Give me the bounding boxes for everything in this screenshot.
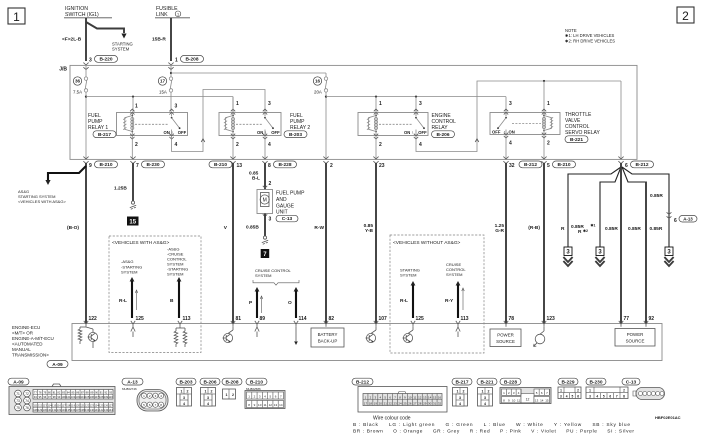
svg-text:<VEHICLES WITH AS&G>: <VEHICLES WITH AS&G>: [18, 199, 66, 204]
svg-text:26: 26: [408, 401, 412, 405]
svg-text:✱1: ✱1: [591, 224, 596, 228]
svg-text:20: 20: [379, 401, 383, 405]
svg-text:B-210: B-210: [557, 162, 570, 168]
svg-text:30: 30: [428, 401, 432, 405]
svg-text:4: 4: [268, 142, 271, 148]
svg-text:B-228: B-228: [504, 379, 517, 385]
svg-text:M: M: [263, 198, 267, 204]
svg-text:✱2: RH DRIVE VEHICLES: ✱2: RH DRIVE VEHICLES: [565, 38, 615, 43]
svg-text:B : Black LG : Light green: B : Black LG : Light green G : Green L :…: [353, 422, 630, 428]
svg-text:7: 7: [136, 163, 139, 169]
svg-text:92: 92: [649, 316, 655, 322]
svg-text:SWITCH (IG1): SWITCH (IG1): [65, 12, 99, 18]
svg-text:16: 16: [438, 395, 442, 399]
svg-text:<F>2L-B: <F>2L-B: [62, 37, 82, 43]
svg-text:SYSTEM: SYSTEM: [121, 270, 137, 275]
svg-text:3: 3: [484, 396, 486, 400]
svg-text:3: 3: [589, 394, 591, 398]
svg-text:18: 18: [369, 401, 373, 405]
svg-text:6: 6: [625, 163, 628, 169]
svg-text:3: 3: [89, 58, 92, 64]
svg-text:10: 10: [408, 395, 412, 399]
svg-text:B-228: B-228: [278, 162, 291, 168]
svg-text:8: 8: [623, 394, 625, 398]
svg-text:B-L: B-L: [252, 176, 260, 182]
svg-text:↑: ↑: [412, 130, 414, 135]
svg-text:<VEHICLES WITH AS&G>: <VEHICLES WITH AS&G>: [112, 240, 170, 246]
svg-text:ON: ON: [257, 130, 263, 135]
svg-text:B-230: B-230: [589, 379, 602, 385]
svg-text:1: 1: [560, 389, 562, 393]
svg-text:2: 2: [577, 389, 579, 393]
svg-text:14: 14: [279, 403, 283, 407]
svg-text:ON: ON: [404, 130, 410, 135]
svg-text:2: 2: [547, 141, 550, 147]
svg-text:12: 12: [526, 398, 530, 402]
svg-text:6: 6: [674, 218, 677, 224]
svg-text:B-210: B-210: [214, 162, 227, 168]
svg-text:B-210: B-210: [99, 162, 112, 168]
svg-text:2: 2: [379, 142, 382, 148]
svg-text:OFF: OFF: [418, 130, 427, 135]
svg-text:4: 4: [566, 394, 568, 398]
svg-text:2: 2: [211, 390, 213, 394]
svg-text:SYSTEM: SYSTEM: [255, 273, 271, 278]
svg-text:2: 2: [236, 142, 239, 148]
svg-text:1: 1: [135, 104, 138, 110]
svg-text:3: 3: [269, 217, 272, 223]
svg-text:SYSTEM: SYSTEM: [400, 273, 416, 278]
svg-text:Wire colour code: Wire colour code: [373, 416, 411, 422]
svg-text:R-Y: R-Y: [445, 298, 454, 304]
svg-text:32: 32: [509, 163, 515, 169]
svg-text:74: 74: [25, 399, 29, 403]
svg-text:27: 27: [413, 401, 417, 405]
svg-text:RELAY 2: RELAY 2: [290, 125, 310, 131]
svg-text:6: 6: [577, 394, 579, 398]
svg-text:2: 2: [330, 163, 333, 169]
svg-text:2: 2: [682, 9, 689, 23]
svg-text:3: 3: [560, 394, 562, 398]
svg-text:POWER: POWER: [497, 333, 514, 338]
svg-text:10: 10: [258, 403, 262, 407]
svg-text:23: 23: [379, 163, 385, 169]
svg-text:31: 31: [433, 401, 437, 405]
svg-text:B-217: B-217: [455, 379, 468, 385]
svg-text:2: 2: [463, 390, 465, 394]
svg-text:36: 36: [75, 79, 81, 84]
svg-text:144: 144: [108, 408, 113, 412]
svg-text:2: 2: [623, 389, 625, 393]
svg-text:13: 13: [423, 395, 427, 399]
svg-text:BR : Brown O : Orange: BR : Brown O : Orange GR : Grey R : Red …: [353, 429, 634, 435]
svg-text:89: 89: [260, 316, 266, 322]
svg-text:114: 114: [299, 316, 307, 322]
svg-text:2: 2: [269, 181, 272, 187]
svg-text:4: 4: [459, 402, 461, 406]
svg-text:21: 21: [384, 401, 388, 405]
svg-text:B-206: B-206: [203, 379, 216, 385]
svg-text:13: 13: [237, 163, 243, 169]
svg-text:1: 1: [236, 101, 239, 107]
svg-text:3: 3: [268, 101, 271, 107]
svg-text:1: 1: [589, 389, 591, 393]
svg-text:2: 2: [135, 142, 138, 148]
svg-text:<VEHICLES WITHOUT AS&G>: <VEHICLES WITHOUT AS&G>: [393, 240, 461, 246]
svg-text:28: 28: [418, 401, 422, 405]
svg-text:1: 1: [177, 13, 179, 17]
svg-text:19: 19: [374, 401, 378, 405]
svg-text:0.85R: 0.85R: [650, 226, 663, 232]
svg-text:B-212: B-212: [524, 162, 537, 168]
svg-text:A-09: A-09: [52, 362, 63, 368]
svg-text:122: 122: [89, 316, 98, 322]
svg-text:R: R: [578, 229, 582, 235]
svg-text:OFF: OFF: [178, 130, 187, 135]
svg-text:<AUTOMATED: <AUTOMATED: [12, 342, 43, 347]
svg-text:1: 1: [379, 101, 382, 107]
svg-text:4: 4: [596, 394, 598, 398]
svg-text:1: 1: [181, 390, 183, 394]
svg-text:3: 3: [207, 396, 209, 400]
svg-text:16: 16: [315, 79, 321, 84]
svg-text:A-13: A-13: [127, 379, 138, 385]
svg-text:73: 73: [16, 399, 20, 403]
svg-text:113: 113: [461, 316, 469, 322]
svg-text:<M/T> OR: <M/T> OR: [12, 331, 34, 336]
svg-text:R: R: [561, 226, 565, 232]
svg-text:4: 4: [419, 142, 422, 148]
svg-text:0.85R: 0.85R: [650, 193, 663, 199]
svg-text:71: 71: [16, 392, 20, 396]
svg-text:UNIT: UNIT: [276, 210, 288, 216]
svg-text:ENGINE-A-M/T-ECU: ENGINE-A-M/T-ECU: [12, 336, 54, 341]
svg-text:R-L: R-L: [119, 298, 127, 304]
svg-text:HBF02E01AC: HBF02E01AC: [655, 415, 681, 420]
svg-text:123: 123: [547, 316, 556, 322]
svg-text:23: 23: [393, 401, 397, 405]
svg-text:(R-B): (R-B): [528, 225, 540, 231]
svg-text:MU802746: MU802746: [122, 387, 137, 391]
svg-text:11: 11: [263, 403, 266, 407]
svg-text:113: 113: [183, 316, 191, 322]
svg-text:6: 6: [609, 394, 611, 398]
svg-text:R-L: R-L: [400, 298, 408, 304]
svg-text:72: 72: [25, 392, 29, 396]
svg-text:1: 1: [13, 10, 20, 24]
svg-text:9: 9: [89, 163, 92, 169]
svg-text:3: 3: [509, 101, 512, 107]
svg-text:4: 4: [484, 402, 486, 406]
svg-text:17: 17: [160, 79, 166, 84]
svg-text:2: 2: [187, 390, 189, 394]
svg-text:SOURCE: SOURCE: [496, 339, 515, 344]
svg-text:10: 10: [512, 399, 516, 403]
svg-text:J/B: J/B: [59, 67, 67, 73]
svg-text:8: 8: [268, 163, 271, 169]
svg-text:MANUAL: MANUAL: [12, 347, 31, 352]
svg-text:RELAY: RELAY: [432, 125, 449, 131]
svg-text:12: 12: [418, 395, 422, 399]
svg-text:107: 107: [379, 316, 388, 322]
svg-text:15A: 15A: [159, 90, 167, 95]
svg-text:✱2: ✱2: [583, 229, 588, 233]
svg-text:B-212: B-212: [635, 162, 648, 168]
svg-text:B-230: B-230: [146, 162, 159, 168]
svg-text:78: 78: [509, 316, 515, 322]
svg-text:0.85R: 0.85R: [628, 226, 641, 232]
svg-text:OFF: OFF: [271, 130, 280, 135]
svg-text:125: 125: [136, 316, 145, 322]
svg-text:SOURCE: SOURCE: [626, 339, 645, 344]
svg-text:20A: 20A: [314, 90, 322, 95]
svg-text:4: 4: [207, 402, 209, 406]
svg-text:1: 1: [226, 393, 228, 397]
svg-text:C-13: C-13: [626, 379, 637, 385]
svg-text:125: 125: [416, 316, 425, 322]
svg-text:O: O: [288, 300, 292, 306]
svg-text:BATTERY: BATTERY: [318, 332, 338, 337]
svg-text:R-W: R-W: [314, 225, 324, 231]
svg-text:4: 4: [509, 141, 512, 147]
svg-text:15B-R: 15B-R: [152, 37, 166, 43]
svg-text:SYSTEM: SYSTEM: [112, 47, 130, 52]
svg-text:B-210: B-210: [250, 379, 263, 385]
svg-text:RELAY 1: RELAY 1: [88, 125, 108, 131]
svg-text:TRANSMISSION>: TRANSMISSION>: [12, 353, 49, 358]
svg-text:LINK: LINK: [156, 12, 168, 18]
svg-text:B-208: B-208: [225, 379, 238, 385]
svg-text:5: 5: [571, 394, 573, 398]
svg-text:76: 76: [25, 406, 29, 410]
svg-text:15: 15: [129, 220, 136, 226]
svg-text:SYSTEM: SYSTEM: [446, 272, 462, 277]
svg-text:1: 1: [482, 390, 484, 394]
svg-text:B-220: B-220: [99, 57, 112, 63]
svg-text:A-13: A-13: [683, 216, 693, 221]
svg-text:5: 5: [603, 394, 605, 398]
svg-text:B-203: B-203: [179, 379, 192, 385]
svg-text:C-13: C-13: [282, 216, 293, 222]
svg-text:B-221: B-221: [480, 379, 493, 385]
svg-text:22: 22: [389, 401, 393, 405]
svg-text:SERVO RELAY: SERVO RELAY: [565, 130, 600, 136]
svg-text:B: B: [170, 298, 174, 304]
svg-text:GAUGE: GAUGE: [276, 204, 295, 210]
svg-text:-AS&G: -AS&G: [121, 259, 133, 264]
svg-text:BACK-UP: BACK-UP: [318, 339, 338, 344]
svg-text:25: 25: [403, 401, 407, 405]
svg-text:1: 1: [457, 390, 459, 394]
svg-text:1.25B: 1.25B: [114, 186, 127, 192]
svg-text:32: 32: [438, 401, 442, 405]
svg-text:127: 127: [108, 403, 113, 407]
svg-text:14: 14: [540, 399, 544, 403]
svg-text:7: 7: [616, 394, 618, 398]
svg-text:82: 82: [329, 316, 335, 322]
svg-text:3: 3: [459, 396, 461, 400]
svg-text:4: 4: [183, 402, 185, 406]
svg-text:12: 12: [269, 403, 273, 407]
svg-text:3: 3: [183, 396, 185, 400]
svg-text:B-221: B-221: [570, 137, 583, 143]
svg-text:1: 1: [547, 101, 550, 107]
svg-text:ENGINE-ECU: ENGINE-ECU: [12, 325, 40, 330]
svg-text:B-206: B-206: [436, 132, 449, 138]
svg-text:15: 15: [433, 395, 437, 399]
svg-text:2: 2: [232, 393, 234, 397]
svg-text:13: 13: [535, 399, 539, 403]
svg-text:G-R: G-R: [495, 228, 504, 234]
svg-text:4: 4: [175, 142, 178, 148]
svg-text:ON: ON: [509, 130, 515, 135]
svg-text:POWER: POWER: [627, 332, 644, 337]
svg-text:B-203: B-203: [289, 132, 302, 138]
svg-text:Y-B: Y-B: [365, 228, 374, 234]
svg-text:SYSTEM: SYSTEM: [167, 272, 183, 277]
svg-text:3: 3: [419, 101, 422, 107]
svg-text:29: 29: [423, 401, 427, 405]
svg-text:B-208: B-208: [185, 57, 198, 63]
svg-text:ON: ON: [164, 130, 170, 135]
svg-text:110: 110: [109, 395, 114, 399]
svg-text:11: 11: [413, 395, 416, 399]
svg-text:2: 2: [488, 390, 490, 394]
svg-text:81: 81: [236, 316, 242, 322]
svg-text:B-229: B-229: [561, 379, 574, 385]
svg-text:OFF: OFF: [492, 130, 501, 135]
svg-text:0.85R: 0.85R: [605, 226, 618, 232]
svg-text:B-217: B-217: [98, 132, 111, 138]
svg-text:7.5A: 7.5A: [73, 90, 82, 95]
svg-text:1: 1: [205, 390, 207, 394]
svg-text:0.85B: 0.85B: [246, 225, 259, 231]
svg-text:17: 17: [364, 401, 368, 405]
svg-text:AND: AND: [276, 197, 287, 203]
svg-text:13: 13: [274, 403, 278, 407]
svg-text:3: 3: [175, 104, 178, 110]
svg-text:77: 77: [624, 316, 630, 322]
svg-text:24: 24: [398, 401, 402, 405]
svg-text:15: 15: [545, 399, 549, 403]
svg-text:A-09: A-09: [13, 379, 24, 385]
svg-text:1: 1: [175, 58, 178, 64]
svg-text:5: 5: [547, 163, 550, 169]
svg-text:(B-O): (B-O): [67, 225, 79, 231]
svg-text:11: 11: [517, 399, 520, 403]
svg-text:B-212: B-212: [356, 379, 369, 385]
svg-text:FUEL PUMP: FUEL PUMP: [276, 191, 305, 197]
svg-text:14: 14: [428, 395, 432, 399]
svg-text:75: 75: [16, 406, 20, 410]
